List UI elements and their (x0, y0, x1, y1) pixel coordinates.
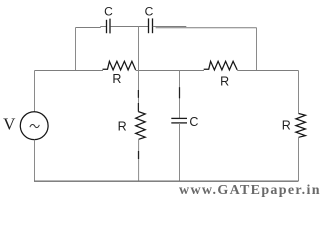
resistor R3 (middle vertical) (136, 112, 146, 140)
svg-text:R: R (118, 120, 127, 134)
wire top-right long segment at y=27.5 (156, 27, 257, 29)
wire top-right vertical drop x=256.5 (256, 28, 258, 71)
wire mid horizontal between R1 and R2 (136, 70, 204, 72)
svg-text:R: R (112, 72, 121, 86)
wire top-left horizontal segment (76, 27, 101, 29)
wire dark lead dash above middle resistor (lower) (137, 103, 139, 112)
wire from source to bottom wire (34, 140, 36, 181)
wire dark lead dash above middle resistor (upper) (137, 90, 139, 98)
svg-text:R: R (220, 75, 229, 89)
wire small step at x=100.5 (100, 27, 102, 28)
voltage source V1 sine symbol (30, 124, 39, 127)
wire from middle resistor to bottom wire (138, 139, 140, 181)
wire dark lead dash below middle resistor (138, 151, 140, 159)
svg-text:C: C (145, 5, 154, 19)
wire from resistor R4 to bottom wire (298, 137, 300, 181)
wire left vertical from mid wire to source (34, 71, 36, 112)
wire right vertical from mid wire to resistor R4 (298, 71, 300, 114)
resistor R1 (103, 61, 136, 70)
resistor R4 (right vertical) (296, 114, 306, 138)
wire mid horizontal left of R1 (35, 70, 104, 72)
capacitor C1 (107, 19, 111, 34)
svg-text:C: C (104, 5, 113, 19)
wire mid horizontal right of R2 (237, 70, 298, 72)
resistor R2 (204, 61, 238, 70)
voltage source V1 circle (20, 112, 48, 140)
wire between C1 and C2 (111, 26, 149, 28)
wire from capacitor C3 to bottom wire (179, 123, 181, 181)
wire from mid wire down to capacitor C3 (179, 71, 181, 119)
capacitor C3 (171, 118, 187, 123)
wire right of C2 (upper line of doubled segment) (153, 26, 187, 28)
svg-text:C: C (189, 115, 198, 129)
svg-text:V: V (3, 115, 16, 134)
svg-text:R: R (282, 118, 291, 132)
wire dark lead dash above capacitor C3 (179, 87, 181, 98)
svg-text:www.GATEpaper.in: www.GATEpaper.in (179, 183, 320, 198)
wire bottom horizontal (34, 180, 299, 182)
wire junction vertical x=138.5 from top wire to middle resistor (138, 27, 140, 112)
wire top-left vertical drop x=75.4 (75, 28, 77, 71)
wire to capacitor C1 left plate (101, 26, 107, 28)
capacitor C2 (149, 18, 153, 33)
